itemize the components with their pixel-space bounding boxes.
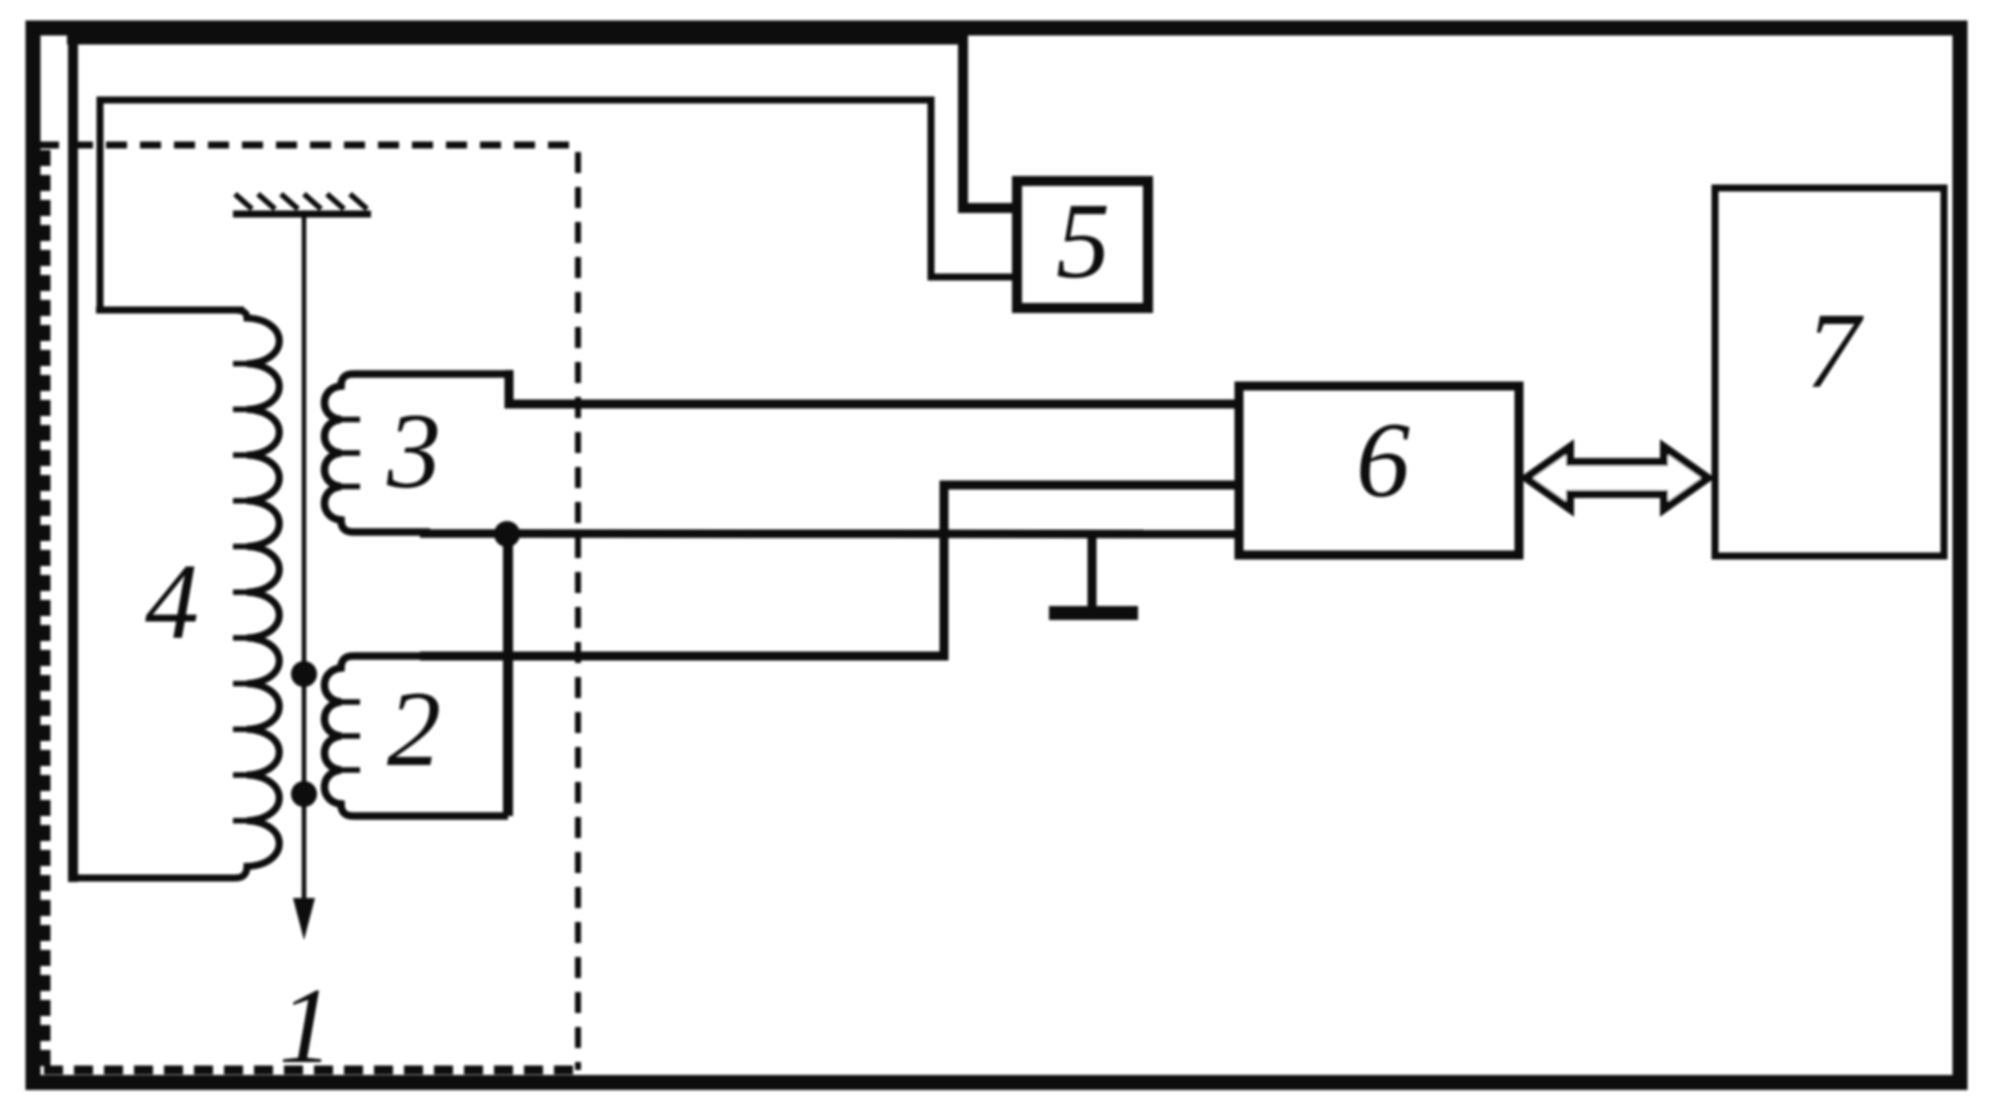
svg-text:7: 7 bbox=[1806, 292, 1864, 411]
box 6 bbox=[1239, 386, 1519, 555]
fixed support bar bbox=[233, 211, 371, 218]
svg-text:3: 3 bbox=[386, 392, 441, 511]
wire: coil 2 top to box 6 bbox=[420, 485, 1239, 656]
wire: coil 4 bottom to top rail bbox=[68, 35, 78, 882]
ground stem bbox=[1088, 533, 1097, 612]
box 5 generator bbox=[1017, 181, 1148, 308]
coil 3 winding bbox=[325, 374, 510, 532]
wire: coil 3 top to box 6 bbox=[509, 370, 1239, 404]
bidirectional arrow between 6 and 7 bbox=[1526, 447, 1708, 509]
svg-text:1: 1 bbox=[279, 967, 333, 1086]
arrowhead of rod 1 bbox=[293, 898, 315, 940]
tap dot lower on rod bbox=[291, 781, 317, 807]
tap dot upper on rod bbox=[291, 661, 317, 687]
coil 2 winding bbox=[325, 656, 509, 816]
svg-text:4: 4 bbox=[145, 543, 199, 662]
fixed support hatching bbox=[235, 194, 367, 209]
box 7 bbox=[1715, 188, 1944, 556]
coil 4 winding bbox=[68, 310, 279, 878]
svg-text:5: 5 bbox=[1056, 182, 1110, 301]
wire: coil 4 top loop bbox=[100, 100, 1017, 310]
wire: coil 3 bottom to box 6 bbox=[420, 529, 1239, 538]
ground bar bbox=[1049, 606, 1138, 620]
svg-text:6: 6 bbox=[1356, 401, 1410, 520]
junction dot bbox=[494, 521, 520, 547]
sensor enclosure dashed boundary bbox=[38, 145, 578, 1070]
rod 1 (movable core) bbox=[302, 217, 307, 902]
wire: top rail to box 5 bbox=[67, 40, 1017, 209]
wire: junction to coil 2 bottom bbox=[503, 534, 513, 816]
svg-text:2: 2 bbox=[387, 670, 441, 789]
